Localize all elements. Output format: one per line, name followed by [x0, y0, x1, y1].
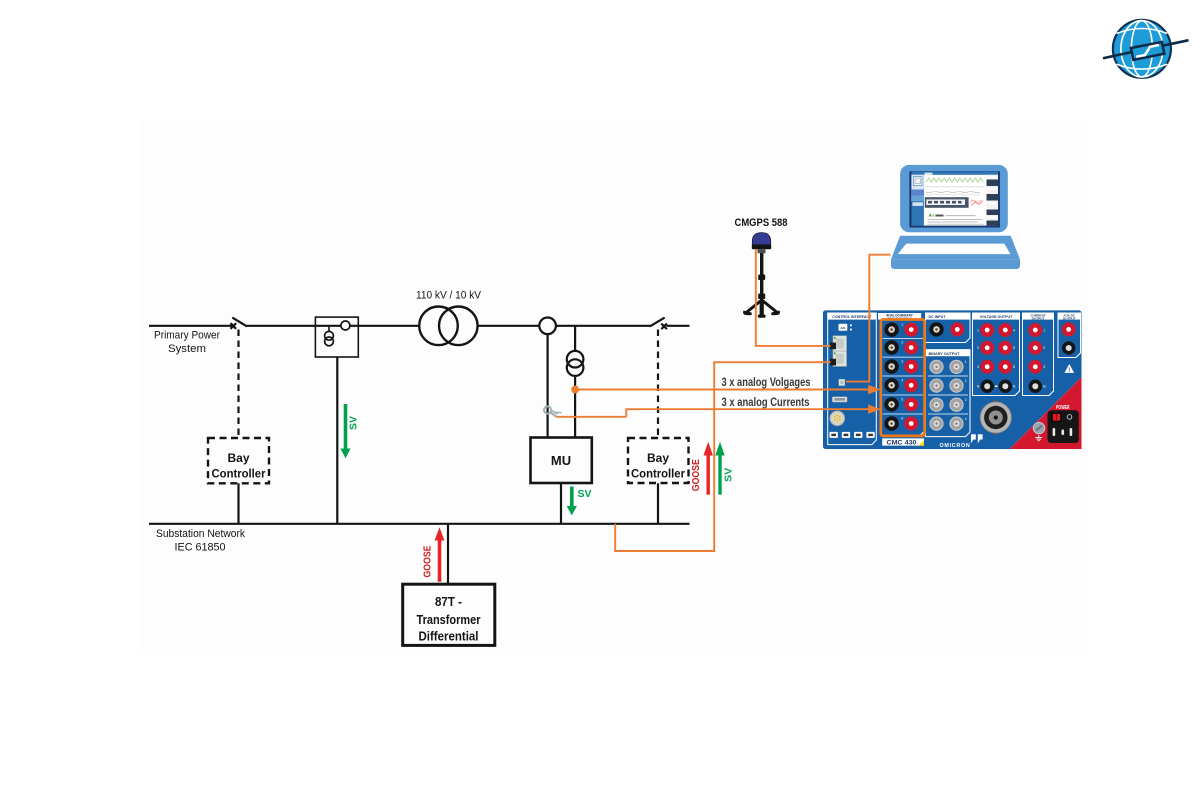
- svg-text:2: 2: [1043, 346, 1045, 350]
- svg-text:IEC 61850: IEC 61850: [175, 542, 226, 554]
- svg-text:3: 3: [977, 365, 979, 369]
- svg-text:N: N: [1043, 385, 1046, 389]
- svg-text:2: 2: [901, 341, 903, 345]
- svg-text:VOLTAGE OUTPUT: VOLTAGE OUTPUT: [980, 315, 1013, 319]
- svg-text:MU: MU: [551, 453, 571, 468]
- svg-text:Transformer: Transformer: [417, 613, 481, 627]
- svg-text:N: N: [1013, 385, 1016, 389]
- svg-text:A/S: A/S: [840, 326, 845, 330]
- svg-text:2: 2: [965, 379, 967, 383]
- svg-text:87T -: 87T -: [435, 595, 462, 609]
- svg-text:6: 6: [901, 417, 903, 421]
- svg-text:SV: SV: [722, 468, 734, 482]
- svg-text:Controller: Controller: [212, 467, 266, 481]
- svg-text:3 x analog Volgages: 3 x analog Volgages: [722, 377, 811, 389]
- svg-text:CONTROL INTERFACE: CONTROL INTERFACE: [832, 315, 872, 319]
- svg-text:2: 2: [977, 346, 979, 350]
- svg-text:OUTPUT: OUTPUT: [1032, 316, 1045, 320]
- svg-text:CMGPS 588: CMGPS 588: [735, 217, 788, 229]
- svg-text:110 kV / 10 kV: 110 kV / 10 kV: [416, 290, 482, 302]
- svg-text:Controller: Controller: [631, 467, 685, 481]
- svg-text:System: System: [168, 343, 206, 355]
- svg-text:4: 4: [901, 379, 903, 383]
- svg-text:POWER: POWER: [1056, 405, 1070, 411]
- svg-text:3: 3: [901, 360, 903, 364]
- svg-text:5: 5: [1013, 346, 1015, 350]
- svg-text:Bay: Bay: [647, 451, 669, 465]
- svg-text:!: !: [1068, 368, 1070, 374]
- svg-text:1: 1: [901, 323, 903, 327]
- svg-text:N: N: [977, 385, 980, 389]
- svg-text:DC INPUT: DC INPUT: [929, 315, 947, 319]
- svg-text:Differential: Differential: [419, 630, 479, 644]
- svg-text:3 x analog Currents: 3 x analog Currents: [722, 397, 810, 409]
- svg-text:SV: SV: [348, 416, 360, 430]
- svg-text:1: 1: [965, 360, 967, 364]
- svg-text:GOOSE: GOOSE: [421, 546, 433, 578]
- svg-text:1: 1: [1043, 328, 1045, 332]
- svg-text:GOOSE: GOOSE: [690, 459, 702, 491]
- svg-text:Primary Power: Primary Power: [154, 330, 220, 342]
- svg-text:Substation Network: Substation Network: [156, 528, 245, 540]
- svg-text:3: 3: [965, 398, 967, 402]
- svg-text:3: 3: [1043, 365, 1045, 369]
- svg-text:4: 4: [965, 417, 967, 421]
- svg-text:CMC 430: CMC 430: [887, 440, 917, 447]
- svg-text:Bay: Bay: [227, 451, 249, 465]
- svg-text:SV: SV: [578, 488, 592, 500]
- svg-text:1: 1: [977, 328, 979, 332]
- svg-text:OMICRON: OMICRON: [940, 443, 971, 449]
- svg-text:BINARY OUTPUT: BINARY OUTPUT: [929, 352, 961, 356]
- svg-text:6: 6: [1013, 365, 1015, 369]
- svg-text:OUTPUT: OUTPUT: [1063, 316, 1076, 320]
- svg-text:4: 4: [1013, 328, 1015, 332]
- svg-text:5: 5: [901, 398, 903, 402]
